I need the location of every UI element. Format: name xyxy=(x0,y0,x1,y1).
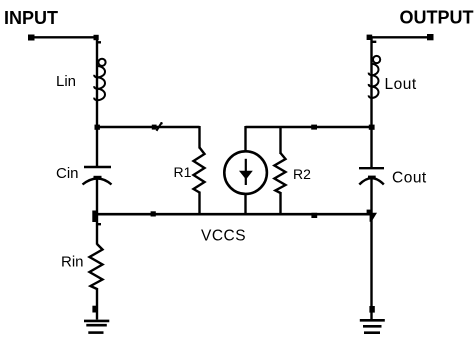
wire Lout vertical xyxy=(370,37,372,168)
capacitor Cout xyxy=(359,168,384,184)
wire Cin to bottom rail xyxy=(96,178,98,245)
resistor Rin xyxy=(90,244,103,289)
node dot on top-right rail xyxy=(311,125,317,130)
svg-text:Lout: Lout xyxy=(385,76,417,93)
wire output to Lout top xyxy=(372,36,431,38)
resistor R1 xyxy=(194,126,205,215)
svg-text:INPUT: INPUT xyxy=(4,8,58,28)
inductor Lout xyxy=(369,56,381,98)
svg-text:OUTPUT: OUTPUT xyxy=(400,8,474,28)
node tick on top-left rail xyxy=(152,122,163,131)
output terminal xyxy=(427,34,434,40)
svg-text:Rin: Rin xyxy=(61,253,84,270)
wire input to Lin top xyxy=(31,36,97,38)
svg-text:Cin: Cin xyxy=(56,165,79,182)
wire bottom rail xyxy=(95,213,372,216)
svg-text:R1: R1 xyxy=(174,164,192,180)
node junction Cin/Rin/bottom rail xyxy=(92,211,101,225)
wire top-right rail xyxy=(246,126,372,129)
ground left xyxy=(84,321,109,333)
current source VCCS xyxy=(224,126,267,215)
capacitor Cin xyxy=(83,167,112,185)
wire Lin vertical xyxy=(96,37,98,167)
node above left ground xyxy=(92,306,97,313)
node junction Lin/Cin/R1 xyxy=(95,125,100,130)
wire top-left rail xyxy=(97,126,200,129)
node corner above Lout xyxy=(367,35,377,42)
node junction Cout/bottom rail xyxy=(367,210,377,222)
node junction Lout/Cout/rail xyxy=(369,125,375,130)
inductor Lin xyxy=(94,59,105,100)
wire Rin to ground xyxy=(96,288,98,320)
wire Cout to ground xyxy=(370,178,372,319)
resistor R2 xyxy=(274,126,285,215)
input terminal xyxy=(28,35,35,41)
svg-text:Cout: Cout xyxy=(392,169,427,186)
ground right xyxy=(360,320,385,332)
node above right ground xyxy=(369,306,374,313)
svg-text:Lin: Lin xyxy=(56,73,76,90)
node dot on bottom-right rail xyxy=(311,213,317,218)
node corner above Lin xyxy=(94,35,102,43)
svg-text:R2: R2 xyxy=(293,166,311,182)
node dot on bottom-left rail xyxy=(151,211,156,216)
svg-text:VCCS: VCCS xyxy=(201,227,246,244)
